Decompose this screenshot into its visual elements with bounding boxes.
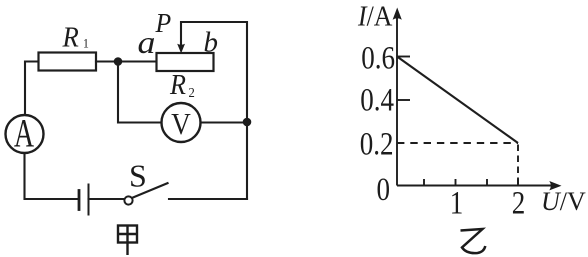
resistor R1 bbox=[39, 53, 97, 71]
x tick 0.5 bbox=[423, 179, 425, 186]
label jia (甲) drawn strokes bbox=[118, 226, 137, 256]
graph y-axis I/A bbox=[397, 17, 553, 186]
y-axis arrow head bbox=[393, 8, 402, 20]
x-axis arrow head bbox=[549, 181, 561, 190]
svg-text:0.2: 0.2 bbox=[360, 125, 394, 162]
svg-text:A: A bbox=[14, 112, 34, 156]
wire junction down to voltmeter bbox=[118, 62, 162, 123]
svg-text:I/A: I/A bbox=[357, 0, 393, 32]
I-U line bbox=[397, 57, 518, 144]
label yi (乙) drawn strokes bbox=[461, 229, 486, 253]
svg-text:0.4: 0.4 bbox=[360, 81, 394, 118]
wire slider P to top and right down bbox=[181, 22, 247, 199]
voltmeter V circle bbox=[162, 103, 201, 142]
wire voltmeter right to right rail bbox=[201, 121, 248, 123]
y tick 0.6 bbox=[397, 56, 410, 58]
wire ammeter down to bottom rail bbox=[25, 153, 80, 199]
wire battery to switch bbox=[89, 198, 125, 200]
svg-text:2: 2 bbox=[512, 184, 526, 221]
dashed horizontal at 0.2 bbox=[397, 142, 518, 144]
y tick 0.4 bbox=[397, 99, 410, 101]
svg-text:b: b bbox=[204, 27, 219, 59]
wire R1 left lead and down to ammeter bbox=[25, 62, 39, 116]
svg-text:U/V: U/V bbox=[541, 187, 586, 216]
svg-text:R: R bbox=[62, 22, 79, 54]
rheostat R2 box bbox=[157, 53, 214, 71]
switch S pivot circle bbox=[124, 196, 132, 204]
svg-text:2: 2 bbox=[189, 84, 195, 100]
svg-text:R: R bbox=[169, 68, 186, 101]
node junction dot right bbox=[243, 118, 252, 127]
ammeter A circle bbox=[6, 115, 44, 153]
svg-text:V: V bbox=[171, 107, 191, 141]
svg-text:a: a bbox=[138, 26, 156, 61]
battery short plate bbox=[78, 191, 81, 210]
svg-text:0.6: 0.6 bbox=[361, 39, 395, 76]
x tick 1 bbox=[455, 179, 457, 186]
svg-text:1: 1 bbox=[83, 36, 89, 51]
wire switch right to right rail bbox=[169, 198, 247, 200]
x tick 1.5 bbox=[486, 179, 488, 186]
svg-text:P: P bbox=[155, 8, 172, 38]
wire R1 right to R2 left bbox=[96, 60, 157, 62]
switch lever bbox=[133, 183, 168, 197]
svg-text:0: 0 bbox=[376, 170, 390, 207]
x tick 2 bbox=[517, 179, 519, 186]
battery long plate bbox=[88, 185, 90, 215]
dashed vertical at U=2 bbox=[517, 145, 519, 186]
node junction dot left bbox=[114, 57, 123, 66]
svg-text:1: 1 bbox=[450, 184, 464, 221]
svg-text:S: S bbox=[129, 158, 147, 194]
slider arrow head P bbox=[177, 44, 185, 54]
